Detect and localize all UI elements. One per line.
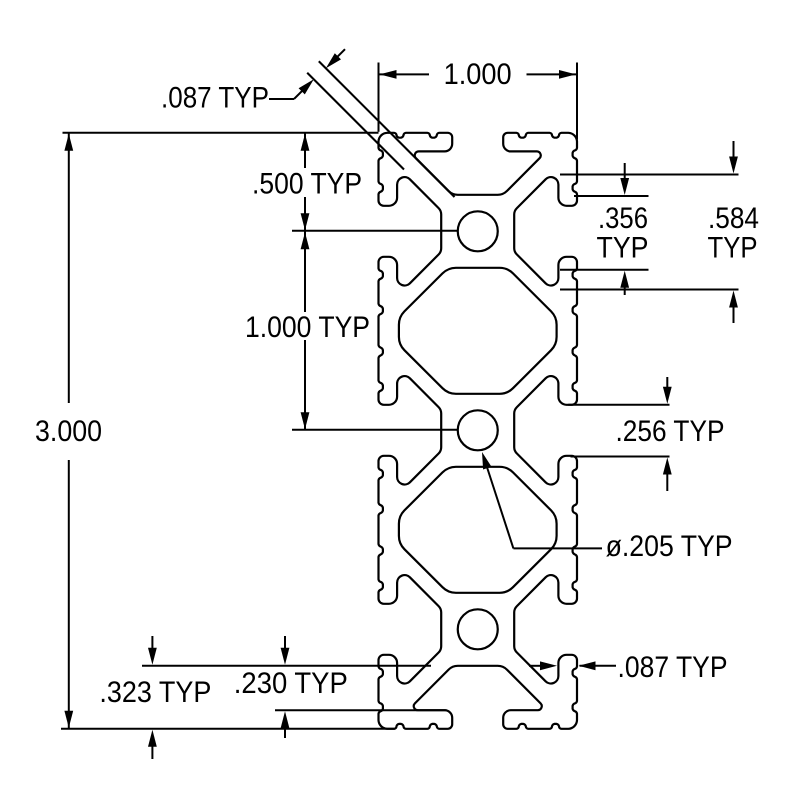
dimension .584 TYP: [560, 141, 759, 323]
dimension .087 TYP wall thickness (top left): [161, 49, 345, 114]
center hole 1: [458, 211, 498, 251]
extrusion outer profile: [379, 133, 578, 729]
dimension .356 TYP: [560, 163, 649, 295]
svg-text:.584: .584: [708, 202, 759, 235]
diamond cavity 2: [399, 467, 557, 593]
svg-text:TYP: TYP: [708, 232, 758, 265]
svg-text:TYP: TYP: [597, 232, 649, 265]
dimension 1.000 top width: [379, 58, 578, 140]
svg-text:.087 TYP: .087 TYP: [161, 82, 269, 115]
dimension .230 TYP: [234, 636, 447, 738]
leader dia .205 TYP hole diameter: [482, 452, 733, 563]
center hole 3: [458, 609, 498, 649]
dimension .500 TYP: [252, 133, 458, 232]
svg-text:1.000: 1.000: [444, 58, 512, 91]
svg-text:.356: .356: [598, 202, 648, 235]
svg-text:3.000: 3.000: [35, 415, 102, 448]
svg-text:.087 TYP: .087 TYP: [618, 651, 728, 684]
svg-text:.323 TYP: .323 TYP: [99, 676, 211, 709]
svg-text:ø.205 TYP: ø.205 TYP: [606, 530, 733, 563]
dimension 1.000 TYP hole spacing: [245, 231, 458, 430]
dimension 3.000 overall height: [35, 133, 395, 729]
svg-text:.256 TYP: .256 TYP: [616, 415, 725, 448]
svg-text:1.000 TYP: 1.000 TYP: [245, 311, 370, 344]
web wall extension lines (diagonal): [307, 61, 454, 197]
dimension .256 TYP slot opening: [568, 377, 724, 491]
diamond cavity 1: [399, 268, 557, 394]
svg-text:.500 TYP: .500 TYP: [252, 168, 362, 201]
center hole 2: [458, 410, 498, 450]
svg-text:.230 TYP: .230 TYP: [234, 667, 348, 700]
dimension .087 TYP wall thickness (bottom right): [529, 651, 728, 684]
dimension .323 TYP: [99, 636, 431, 759]
